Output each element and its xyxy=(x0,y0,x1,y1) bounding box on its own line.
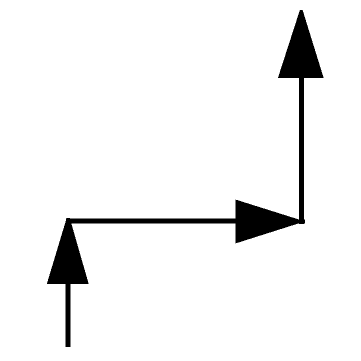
arrow A2 head xyxy=(236,200,305,244)
arrow A3 head xyxy=(278,10,324,78)
arrow A1 head xyxy=(47,218,89,284)
arrow A2 (horizontal, pointing right): tail wire xyxy=(66,219,236,224)
arrow A1 (bottom-left, pointing up): tail wire xyxy=(66,280,71,347)
arrow A3 (top-right, pointing up): tail wire xyxy=(299,73,304,224)
arrow A2 tip pixel xyxy=(304,220,305,224)
